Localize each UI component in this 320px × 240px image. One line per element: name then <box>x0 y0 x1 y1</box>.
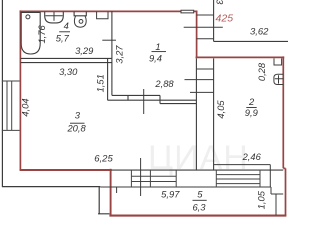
toilet <box>74 12 86 16</box>
hatch: shaft tick 6 <box>190 91 214 93</box>
wall: red top wall of room 2 <box>196 56 285 58</box>
wall: red balcony bottom wall <box>109 215 286 217</box>
svg-text:1: 1 <box>155 41 160 52</box>
door tick: vertical mark crossing kitchen bottom wall <box>143 89 145 114</box>
niche: open box right of toilet <box>97 12 108 19</box>
wall: bathroom right wall <box>111 11 113 58</box>
wall: building outer left black line <box>1 0 3 187</box>
fraction bar room 3 <box>70 122 85 124</box>
svg-text:1,76: 1,76 <box>36 24 47 43</box>
wall: bathroom bottom double wall <box>21 58 112 62</box>
window: balcony door divider tick <box>140 158 142 196</box>
wall: red jog to balcony right <box>283 168 285 215</box>
svg-text:4,05: 4,05 <box>215 100 226 119</box>
svg-text:3,29: 3,29 <box>75 45 94 56</box>
hatch: shaft tick 1 <box>196 14 213 16</box>
wall: stairwell wall upper vertical <box>213 0 215 41</box>
wall: red apartment top wall <box>20 10 198 12</box>
wall: red right wall of room 2 <box>282 56 284 168</box>
svg-text:4: 4 <box>64 20 69 31</box>
window: left exterior wall window <box>2 81 20 130</box>
bathtub drain circle <box>26 15 30 19</box>
svg-text:3: 3 <box>75 109 81 120</box>
hatch: shaft tick 2 <box>184 26 223 28</box>
wall: building outer bottom-left black line <box>2 186 100 188</box>
wall: shaft right vertical (room 2 left wall) <box>213 58 215 170</box>
svg-text:6,25: 6,25 <box>94 153 113 164</box>
wall: balcony right inner step <box>271 187 283 215</box>
svg-text:20,8: 20,8 <box>66 122 86 133</box>
wall: red apartment left wall <box>19 10 21 170</box>
svg-text:6,3: 6,3 <box>192 202 206 213</box>
svg-text:1,05: 1,05 <box>255 190 266 209</box>
hatch: shaft tick 3 <box>196 38 213 40</box>
svg-text:2: 2 <box>248 96 255 107</box>
svg-text:2,46: 2,46 <box>242 152 262 162</box>
bathtub <box>21 12 40 54</box>
wall: shaft left black vertical (kitchen right wall) <box>195 58 197 170</box>
hatch: shaft tick 4 <box>196 68 213 70</box>
fraction bar room 4 <box>59 31 70 33</box>
svg-text:2,88: 2,88 <box>154 78 174 89</box>
niche: black notch in top wall <box>181 10 194 13</box>
wall: balcony window band bottom line <box>100 186 271 188</box>
wall: red vertical right of kitchen (stair side) <box>196 11 198 58</box>
window: balcony window 2 <box>216 170 260 187</box>
door tick: bathroom wall horizontal mark <box>102 39 116 41</box>
fraction bar room 1 <box>152 51 167 53</box>
wall: room 2 bottom line <box>214 165 271 187</box>
svg-text:ЦИАН: ЦИАН <box>148 139 249 177</box>
svg-text:3,62: 3,62 <box>250 27 269 38</box>
window: small tick below band left <box>116 187 118 193</box>
svg-text:5,97: 5,97 <box>161 189 180 200</box>
wall: kitchen bottom wall lines <box>108 95 197 103</box>
svg-text:5,7: 5,7 <box>56 32 70 43</box>
fraction bar room 5 <box>193 199 207 201</box>
hatch: shaft tick 5 <box>185 79 214 81</box>
svg-text:425: 425 <box>216 13 234 25</box>
svg-text:3: 3 <box>215 0 226 5</box>
washbasin with cross <box>45 12 64 23</box>
vent fixture with cross in room 2 <box>274 74 283 84</box>
wall: black step down to balcony left <box>98 187 110 214</box>
svg-text:3,30: 3,30 <box>59 66 78 77</box>
wall: balcony window band top line <box>111 169 283 171</box>
wall: red balcony left wall <box>110 169 112 216</box>
niche: room 2 nook 0,28 <box>274 58 282 65</box>
svg-text:0,28: 0,28 <box>256 62 267 81</box>
svg-text:1,51: 1,51 <box>94 74 105 92</box>
svg-text:4,04: 4,04 <box>20 98 31 116</box>
svg-text:3,27: 3,27 <box>113 45 124 64</box>
fraction bar room 2 <box>246 107 256 109</box>
window: balcony window 1 <box>131 170 176 187</box>
wall: kitchen left double wall <box>108 58 112 100</box>
svg-text:5: 5 <box>197 189 203 200</box>
wall: stairwell landing line under 3,62 <box>214 40 288 42</box>
wall: red bottom wall of room 3 <box>20 169 112 171</box>
svg-text:9,4: 9,4 <box>149 53 162 64</box>
svg-text:9,9: 9,9 <box>245 107 259 118</box>
